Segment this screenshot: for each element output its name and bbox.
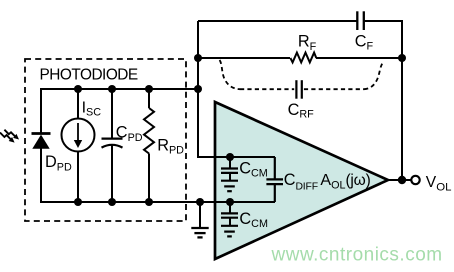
node: feedback/RF junction [194,54,202,62]
wire bottom rail [41,201,275,203]
capacitor C_CM upper [229,157,231,168]
node: RF/CF right junction [398,54,406,62]
resistor R_F [290,53,316,63]
node lower input [226,198,234,206]
svg-text:RF: RF [298,33,317,53]
capacitor C_PD [111,89,113,139]
output terminal [411,176,419,184]
node upper input [226,153,234,161]
junction dots top rail [74,85,82,93]
svg-text:CPD: CPD [116,124,143,144]
wire top rail [41,88,198,90]
junction dots bottom rail [74,198,82,206]
output feedback vertical wire [401,58,403,180]
svg-text:DPD: DPD [45,153,72,173]
ground lower C_CM [221,225,238,227]
svg-text:CF: CF [355,33,374,53]
light arrows [0,130,15,140]
wire I_SC bottom [77,152,79,203]
node: rail junction [194,85,202,93]
R_F wire [198,57,290,59]
feedback left vertical wire [197,21,199,157]
inverting input wire [197,156,275,158]
node output [398,176,406,184]
photodiode D_PD [32,134,51,149]
photodiode dashed box [25,59,186,221]
op-amp U1 [215,102,388,259]
wire I_SC top [77,89,79,119]
svg-text:CRF: CRF [288,101,315,121]
ground upper C_CM [221,180,238,182]
svg-text:www.cntronics.com: www.cntronics.com [271,245,443,266]
top feedback loop wire [198,20,357,22]
ground main [199,202,201,227]
dashed C_RF branch [220,60,240,89]
current source I_SC [62,119,95,152]
svg-text:VOL: VOL [426,174,452,193]
wire left leg [40,88,42,133]
node ground [196,198,204,206]
capacitor C_RF [295,80,297,99]
svg-text:PHOTODIODE: PHOTODIODE [40,66,138,83]
resistor R_PD [148,89,150,108]
output wire [388,179,412,181]
capacitor C_F [356,11,358,30]
svg-text:RPD: RPD [157,136,184,156]
svg-text:ISC: ISC [82,99,102,118]
capacitor C_CM lower [229,202,231,213]
capacitor C_DIFF [274,157,276,179]
svg-text:AOL(jω): AOL(jω) [320,172,370,191]
